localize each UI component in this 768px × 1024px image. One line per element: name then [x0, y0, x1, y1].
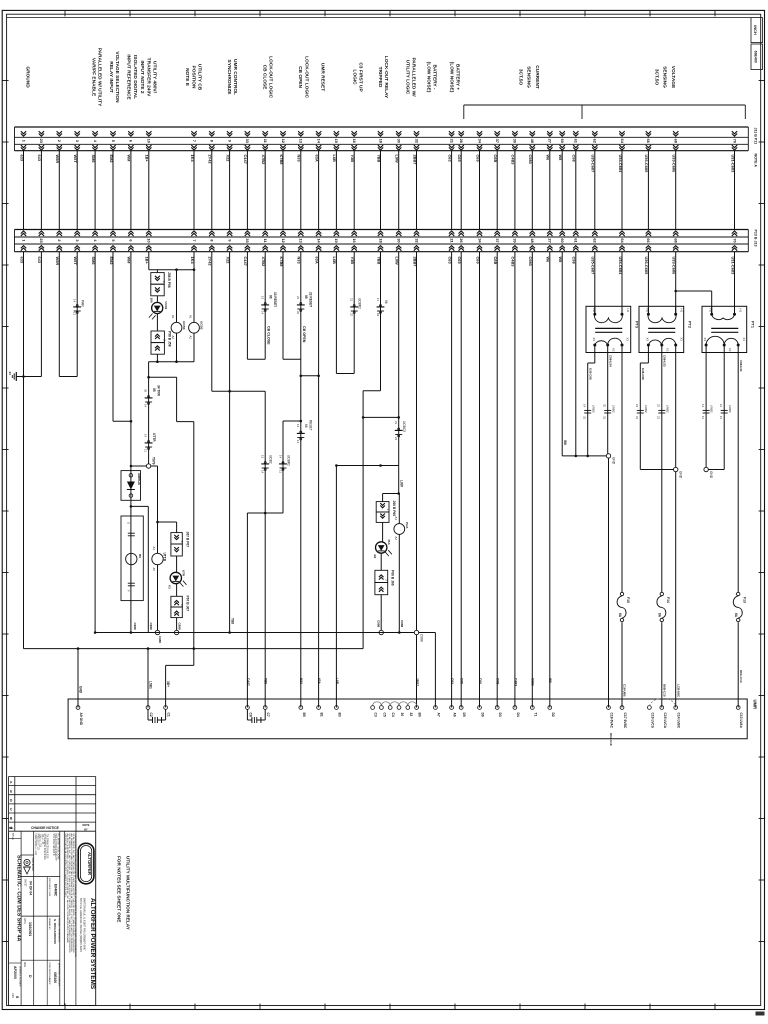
connector plug J58 pin1 [151, 273, 164, 285]
cluster top elbow [383, 493, 399, 495]
svg-text:NO.: NO. [9, 826, 14, 830]
node bus y269.7 [149, 269, 194, 271]
wire UTTR to C988 [157, 565, 159, 633]
wires between connectors [23, 151, 25, 230]
svg-text:37: 37 [495, 238, 500, 242]
wire TRR branch [148, 362, 150, 466]
svg-text:X3: X3 [645, 338, 649, 342]
wire to UTTR coil [157, 466, 159, 553]
svg-text:GND: GND [679, 471, 683, 479]
contact PAR 14-11 [74, 306, 81, 308]
svg-text:E: E [10, 789, 12, 793]
svg-text:F15: F15 [626, 597, 630, 603]
svg-text:TRANSFER 240V: TRANSFER 240V [145, 58, 151, 97]
svg-text:7: 7 [192, 239, 197, 241]
svg-text:B3: B3 [337, 713, 341, 717]
pilot lamp UCR1 [152, 302, 163, 313]
wire Y3B [353, 252, 355, 374]
wire U31-C683 [734, 252, 736, 315]
wire L6B upper [335, 252, 337, 374]
svg-text:63A: 63A [317, 678, 321, 685]
wire W8 sensing [561, 252, 563, 456]
svg-text:13: 13 [261, 296, 265, 300]
svg-text:X2: X2 [728, 348, 732, 352]
PT1 cap b [721, 409, 728, 411]
svg-text:A2: A2 [189, 336, 193, 340]
wire C18 drop [608, 458, 610, 707]
svg-text:SENSING: SENSING [526, 66, 532, 88]
svg-text:C2: C2 [149, 713, 153, 717]
wire 2Y42 [211, 252, 213, 392]
wire L6B lower [335, 466, 337, 708]
svg-text:GROUND: GROUND [25, 66, 31, 88]
branch X22 to C7 [228, 390, 231, 393]
svg-text:PARALLELED W/: PARALLELED W/ [411, 57, 417, 97]
wire C6B run [496, 252, 498, 708]
connector J11 P11 strip [15, 126, 749, 128]
connector plug J67 pin1 [171, 533, 182, 544]
fuse F15 [620, 592, 623, 595]
wire C7 run [264, 391, 266, 707]
svg-text:14: 14 [261, 311, 265, 315]
svg-text:X3: X3 [703, 338, 707, 342]
svg-text:U35-C687: U35-C687 [591, 155, 596, 173]
wire 2BB7 [416, 252, 418, 708]
svg-text:3CT,5O: 3CT,5O [653, 69, 659, 86]
right border zone ticks [759, 80, 765, 82]
svg-text:X7B2: X7B2 [261, 155, 266, 166]
svg-text:C447: C447 [246, 678, 250, 686]
wire J67 to lamp [176, 556, 178, 572]
svg-text:W5T: W5T [73, 155, 78, 164]
svg-text:37: 37 [495, 139, 500, 143]
svg-text:C6B: C6B [496, 678, 500, 685]
PT1 X1 wire to fuse [737, 353, 739, 593]
svg-text:63A: 63A [314, 155, 319, 162]
svg-text:C14 LVBC: C14 LVBC [677, 713, 681, 729]
svg-text:U31-C683: U31-C683 [730, 155, 735, 174]
svg-text:11: 11 [279, 470, 283, 473]
svg-text:11: 11 [701, 416, 705, 419]
jog to wire 1K4 [149, 376, 177, 378]
contact 05 RESET [297, 304, 304, 306]
svg-text:NOTE E: NOTE E [184, 68, 190, 87]
PT2 X3 wire [647, 353, 649, 364]
svg-text:C3: C3 [374, 713, 378, 717]
svg-text:SENSING: SENSING [662, 66, 668, 88]
svg-text:C15 LVCb: C15 LVCb [663, 713, 667, 728]
svg-text:LOCK-OUT LOGIC: LOCK-OUT LOGIC [303, 56, 309, 98]
ground symbol [15, 372, 17, 381]
wire N33 [300, 252, 302, 708]
svg-text:UMR: UMR [753, 700, 758, 710]
svg-text:05: 05 [152, 388, 156, 392]
connector plug J66 pin1 [376, 502, 389, 512]
svg-text:W8: W8 [563, 440, 567, 445]
loop CB OPEN [283, 358, 301, 360]
svg-text:AP2000: AP2000 [13, 966, 17, 979]
loop B5-B1 [301, 375, 319, 377]
svg-text:C988: C988 [400, 620, 404, 628]
pilot lamp PHL [376, 542, 387, 553]
svg-text:UCR1: UCR1 [164, 302, 168, 310]
svg-text:D6: D6 [481, 713, 485, 717]
svg-text:WM: WM [127, 155, 132, 162]
node GND PT3 [606, 454, 610, 458]
svg-text:POSITION: POSITION [190, 66, 196, 89]
svg-text:C988: C988 [177, 623, 181, 631]
svg-text:D: D [28, 975, 32, 978]
wire 643 [40, 252, 42, 377]
coil PHA [398, 494, 400, 524]
svg-text:SIZE: SIZE [23, 962, 25, 968]
svg-text:L5B1: L5B1 [149, 681, 153, 689]
svg-text:3/16/2001: 3/16/2001 [28, 922, 32, 936]
svg-text:U6A-C18: U6A-C18 [609, 733, 613, 746]
svg-text:UTILITY CB: UTILITY CB [197, 64, 203, 91]
svg-text:C18 6VAC: C18 6VAC [610, 713, 614, 729]
svg-text:A1: A1 [189, 315, 193, 319]
svg-text:31: 31 [583, 416, 587, 420]
svg-text:C65: C65 [457, 155, 462, 163]
wire C8 drop [246, 513, 248, 708]
svg-text:RELAY INPUT: RELAY INPUT [108, 61, 114, 93]
diode UMRCB [129, 474, 133, 478]
svg-text:04 OF 04: 04 OF 04 [29, 881, 33, 895]
UMR cap C8-C7 [246, 709, 248, 720]
svg-text:UCB3: UCB3 [182, 321, 186, 330]
connector plug P66 pin1 [375, 570, 388, 582]
svg-text:U35-C98: U35-C98 [588, 368, 592, 380]
svg-text:PHA: PHA [405, 522, 409, 529]
svg-text:LOGIC: LOGIC [352, 69, 358, 85]
svg-text:60: 60 [560, 238, 565, 242]
svg-text:C98-U33: C98-U33 [662, 355, 666, 367]
node GND PT2 [674, 467, 678, 471]
transformer PT3 [586, 306, 631, 352]
svg-text:A2: A2 [171, 336, 175, 340]
svg-text:X1: X1 [742, 338, 746, 342]
svg-text:L6B: L6B [335, 678, 339, 685]
svg-text:CB OPEN: CB OPEN [297, 66, 303, 88]
svg-text:C983: C983 [528, 155, 533, 165]
wire W5T [76, 252, 78, 377]
sheet units box INCH [751, 18, 763, 43]
svg-text:70: 70 [732, 139, 737, 143]
svg-text:14: 14 [279, 455, 283, 459]
wire 1K4 upper [193, 252, 195, 323]
connector P13 J13 strip [15, 229, 749, 231]
contact UCBC3 21-24 [395, 429, 402, 431]
svg-text:REV: REV [11, 993, 14, 998]
svg-text:2BB7: 2BB7 [415, 678, 419, 686]
svg-text:C988: C988 [133, 623, 137, 631]
svg-text:34 TRR: 34 TRR [157, 385, 161, 397]
UMR jumper arcs cluster [373, 702, 382, 706]
svg-text:14: 14 [583, 404, 587, 408]
svg-text:C3 FIRST UP: C3 FIRST UP [358, 62, 364, 92]
svg-text:24: 24 [394, 437, 398, 441]
svg-text:18: 18 [376, 313, 380, 317]
contact 96 17-18 [377, 306, 384, 308]
svg-text:14: 14 [144, 404, 148, 408]
svg-text:A9 GND: A9 GND [79, 713, 83, 726]
svg-text:LCB-U6C: LCB-U6C [676, 684, 680, 698]
wire C2 drop [147, 649, 149, 708]
svg-text:60: 60 [560, 139, 565, 143]
PT2 cap a [637, 409, 644, 411]
svg-text:S: S [127, 522, 131, 524]
svg-text:LRB2: LRB2 [611, 405, 615, 413]
svg-text:DRAWN BY: DRAWN BY [48, 918, 51, 930]
svg-text:A7: A7 [436, 713, 440, 717]
svg-text:14: 14 [296, 440, 300, 444]
svg-text:12: 12 [719, 404, 723, 408]
svg-text:24: 24 [635, 404, 639, 408]
svg-text:U36-C685: U36-C685 [644, 155, 649, 174]
coil UCB2 [189, 322, 200, 333]
svg-text:C63: C63 [450, 678, 454, 684]
gnd bus PT3 [562, 455, 606, 457]
PT1 X2 wire [723, 353, 725, 470]
svg-text:06: 06 [269, 295, 273, 299]
wire W5R [58, 252, 60, 377]
svg-text:D5: D5 [462, 713, 466, 717]
svg-text:2BB7: 2BB7 [412, 155, 417, 165]
svg-text:13: 13 [296, 424, 300, 428]
left border zone ticks [2, 80, 8, 82]
svg-text:GND: GND [709, 471, 713, 479]
svg-text:DRAWING NUMBER: DRAWING NUMBER [19, 966, 22, 987]
UMR cap C2-C1 [147, 709, 149, 720]
junction C988 b [174, 630, 178, 634]
svg-text:UMR RESET: UMR RESET [320, 63, 326, 91]
wire X7B2 upper [264, 252, 266, 360]
svg-text:X1: X1 [679, 338, 683, 342]
UMR terminals [76, 706, 80, 710]
PT2 X1 wire [675, 353, 677, 468]
diode UMRCB box [121, 471, 141, 501]
svg-text:C65: C65 [460, 678, 464, 684]
svg-text:U6B-C15: U6B-C15 [662, 684, 666, 697]
wire P67 to C988 [176, 618, 178, 633]
svg-text:NOTE A: NOTE A [754, 154, 758, 168]
svg-text:J66 B P66: J66 B P66 [392, 501, 396, 517]
svg-text:C18-U6B: C18-U6B [623, 684, 627, 697]
title block grid [8, 831, 10, 1005]
wire SM6 [94, 252, 96, 633]
svg-text:21: 21 [657, 416, 661, 420]
svg-text:7BB: 7BB [376, 155, 381, 163]
wire 1K4 lower [193, 333, 195, 362]
svg-text:C988: C988 [158, 636, 162, 644]
revision table [9, 776, 96, 778]
stub to J67 [158, 521, 177, 523]
svg-text:13 RESET: 13 RESET [273, 292, 277, 307]
connector plug P58 pin1 [151, 331, 164, 343]
svg-text:27: 27 [548, 238, 553, 242]
svg-text:X22: X22 [225, 155, 230, 163]
svg-text:UMR CONTROL: UMR CONTROL [232, 59, 238, 95]
wire C17 drop [621, 622, 623, 707]
svg-text:UTILITY LOGIC: UTILITY LOGIC [404, 60, 410, 95]
svg-text:F14: F14 [666, 597, 670, 603]
svg-text:C5: C5 [382, 713, 386, 717]
svg-text:LOCK-OUT LOGIC: LOCK-OUT LOGIC [268, 56, 274, 98]
svg-text:L6B: L6B [332, 155, 337, 163]
svg-text:D4: D4 [516, 713, 520, 717]
svg-text:F13: F13 [742, 597, 746, 603]
wire PHA to C988 [398, 534, 400, 632]
svg-text:INCH: INCH [753, 25, 758, 35]
svg-text:PT1: PT1 [751, 321, 755, 328]
svg-text:13: 13 [261, 455, 265, 459]
svg-text:LRB2: LRB2 [710, 405, 714, 413]
svg-text:BY: BY [84, 828, 88, 831]
svg-text:ALTORFER: ALTORFER [87, 852, 92, 876]
UMR module box [68, 699, 747, 739]
svg-text:69E400: 69E400 [753, 51, 757, 63]
svg-text:VOLTAGE SELECTION: VOLTAGE SELECTION [114, 51, 120, 103]
svg-text:X1: X1 [626, 338, 630, 342]
svg-text:C4B3: C4B3 [513, 678, 517, 686]
svg-text:10: 10 [147, 238, 152, 242]
svg-text:U6C-C13: U6C-C13 [739, 670, 743, 683]
PT1 cap a [703, 409, 710, 411]
svg-text:APPROVED CDW DES: APPROVED CDW DES [58, 963, 61, 987]
junction PT1 feed [674, 290, 677, 293]
svg-text:C69: C69 [478, 678, 482, 684]
svg-text:X2: X2 [665, 348, 669, 352]
svg-text:(LOW NOISE): (LOW NOISE) [448, 62, 454, 93]
svg-text:LRB2: LRB2 [728, 405, 732, 413]
svg-text:BATTERY +: BATTERY + [455, 64, 461, 90]
svg-text:F: F [10, 780, 12, 784]
svg-text:A2: A2 [152, 568, 156, 572]
PT3 X3 wire [594, 353, 596, 364]
pilot lamp UTR [170, 572, 181, 583]
svg-text:J11 B P11: J11 B P11 [754, 128, 758, 145]
wire P58 down [156, 354, 158, 362]
B9 internals [128, 532, 135, 534]
svg-text:PROJECT REFERENCE: PROJECT REFERENCE [58, 918, 60, 943]
svg-text:L9W: L9W [400, 480, 404, 487]
svg-text:RESET: RESET [309, 420, 313, 431]
svg-text:H2: H2 [592, 309, 596, 313]
node GND PT1 [704, 467, 708, 471]
PT2 cap b [658, 409, 665, 411]
svg-text:30: 30 [400, 713, 404, 717]
wire C4B3 run [514, 252, 516, 708]
svg-text:S. RICHARDSON: S. RICHARDSON [53, 919, 57, 945]
svg-text:30: 30 [397, 139, 402, 143]
Altorfer logo [78, 843, 94, 884]
node T979 [146, 464, 150, 468]
svg-text:27: 27 [548, 139, 553, 143]
PT3 X1 wire to fuse [621, 353, 623, 593]
bus y513 [247, 512, 283, 514]
connector plug P58 pin2 [151, 343, 164, 355]
connector plug J67 pin2 [171, 544, 182, 556]
junction 7BB wire30 [397, 416, 400, 419]
svg-text:05: 05 [304, 295, 308, 299]
wire A9 GND drop [77, 649, 79, 708]
svg-text:THIRD ANGLE: THIRD ANGLE [31, 857, 34, 872]
svg-text:3CT,5O: 3CT,5O [517, 69, 523, 86]
svg-text:ISOLATED DIGITAL: ISOLATED DIGITAL [132, 55, 138, 99]
module B9 box [121, 516, 143, 601]
contact UCBR2 21-22 [351, 306, 358, 308]
svg-text:11: 11 [144, 449, 148, 452]
wire L9W to cluster [398, 466, 400, 494]
svg-text:B1: B1 [320, 713, 324, 717]
svg-text:L9W: L9W [395, 155, 400, 164]
svg-text:PHL: PHL [387, 540, 391, 546]
wire U33-C686 [675, 252, 677, 315]
connector plug P66 pin2 [375, 583, 388, 595]
wire 63A [318, 252, 320, 708]
svg-text:SPECIFICATION 4A. REVISIONS PE: SPECIFICATION 4A. REVISIONS PER CHANGE N… [64, 834, 67, 898]
svg-text:U36-C98: U36-C98 [641, 368, 645, 380]
svg-text:K3: K3 [168, 585, 172, 589]
svg-text:C8: C8 [248, 713, 252, 717]
contact 66 RESET [297, 432, 304, 434]
svg-text:633: 633 [19, 155, 24, 162]
wire C15 drop [661, 622, 663, 707]
wire C63 run [451, 252, 453, 708]
svg-text:B9: B9 [138, 554, 142, 558]
svg-text:BARTONVILLE, IL 61607 FAX (30: BARTONVILLE, IL 61607 FAX (309)697-5967 [82, 898, 86, 951]
svg-text:CB CLOSE: CB CLOSE [266, 326, 270, 345]
svg-text:T979: T979 [152, 457, 156, 465]
svg-text:24: 24 [8, 372, 12, 376]
wire 7BB [380, 252, 382, 391]
svg-text:36: 36 [144, 389, 148, 393]
junction C988 e [414, 630, 418, 634]
svg-text:C4: C4 [391, 713, 395, 717]
svg-text:32: 32 [603, 404, 607, 408]
wire W6 run [549, 252, 551, 708]
svg-text:CB CLOSE: CB CLOSE [262, 65, 268, 91]
connector plug J58 pin2 [151, 284, 164, 296]
svg-text:VOLTAGE: VOLTAGE [670, 66, 676, 89]
svg-text:B2: B2 [373, 555, 377, 559]
tie K7B8 lower [283, 420, 301, 422]
fuse F14 [660, 592, 663, 595]
junction C988 a [155, 630, 159, 634]
svg-text:N33: N33 [299, 678, 303, 684]
svg-text:C69: C69 [475, 155, 480, 163]
svg-text:2Y42: 2Y42 [208, 155, 213, 165]
svg-text:C988: C988 [149, 623, 153, 631]
svg-text:22: 22 [657, 404, 661, 408]
svg-text:Y3B: Y3B [350, 155, 355, 163]
svg-text:UTILITY MULTIFUNCTION RELAY: UTILITY MULTIFUNCTION RELAY [126, 856, 131, 931]
svg-text:W6: W6 [546, 155, 551, 162]
svg-text:U34-C684: U34-C684 [618, 155, 623, 174]
svg-text:CHANGE NOTICE: CHANGE NOTICE [31, 826, 59, 830]
svg-text:UTTR: UTTR [152, 433, 156, 442]
svg-text:LRB2: LRB2 [644, 405, 648, 413]
svg-text:C98-U31: C98-U31 [739, 360, 743, 372]
svg-text:C1: C1 [167, 713, 171, 717]
svg-text:EM2: EM2 [109, 155, 114, 164]
svg-text:30: 30 [397, 238, 402, 242]
svg-text:21: 21 [296, 296, 300, 300]
wire C1 jog [193, 649, 195, 666]
junction C988 c [379, 630, 383, 634]
transformer PT2 [639, 306, 684, 352]
